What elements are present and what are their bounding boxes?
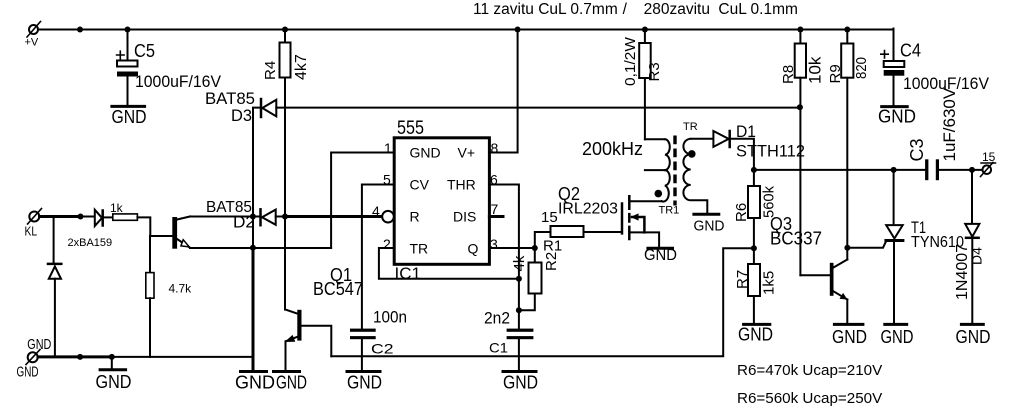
- node: rail junction R9: [844, 27, 850, 33]
- wire: D2/D3 ground vertical: [252, 217, 254, 248]
- svg-text:GND: GND: [112, 107, 147, 127]
- resistor R2: [519, 248, 542, 310]
- capacitor C3: [925, 159, 939, 180]
- node: dot x80: [77, 354, 83, 360]
- svg-text:C1: C1: [489, 340, 508, 356]
- wire: pin1 GND: [331, 153, 394, 249]
- svg-text:GND: GND: [832, 327, 867, 347]
- svg-text:R7: R7: [734, 270, 751, 289]
- diode BA159 (vertical, left): [48, 217, 61, 357]
- wire: pin5 CV: [362, 185, 394, 329]
- svg-text:15: 15: [541, 209, 558, 226]
- svg-text:GND: GND: [503, 373, 538, 393]
- node: dot x111.8: [109, 354, 115, 360]
- ground (D2 line): [235, 372, 275, 393]
- ground (C4): [878, 107, 916, 127]
- svg-text:4.7k: 4.7k: [169, 282, 193, 296]
- svg-text:1k5: 1k5: [761, 271, 778, 295]
- node: rail junction C5: [125, 27, 131, 33]
- ground (C5): [112, 106, 147, 127]
- svg-text:KL: KL: [25, 225, 38, 239]
- svg-text:Q: Q: [468, 241, 479, 257]
- transformer TR1 primary: [645, 139, 670, 201]
- svg-text:R4: R4: [262, 61, 279, 80]
- svg-text:TR: TR: [683, 121, 698, 133]
- node: D2 anode / R4 junction: [282, 214, 288, 220]
- node: Q3 collector junction: [844, 245, 850, 251]
- svg-text:R6=560k Ucap=250V: R6=560k Ucap=250V: [737, 390, 883, 407]
- svg-text:V+: V+: [458, 145, 476, 161]
- svg-text:280zavitu: 280zavitu: [644, 1, 710, 18]
- terminal KL: [28, 209, 42, 225]
- diode D4 1N4007: [965, 170, 979, 324]
- wire: pin6 THR: [489, 185, 519, 311]
- ground (left mid): [96, 357, 132, 392]
- ground (C2): [347, 372, 382, 393]
- node: gnd vertical junction: [250, 245, 256, 251]
- svg-text:IRL2203: IRL2203: [558, 201, 618, 218]
- wire: D3 anode to R8 bottom (y107): [276, 107, 800, 109]
- svg-text:820: 820: [853, 57, 870, 79]
- resistor R8 10k: [795, 30, 806, 276]
- node: R8/D3 junction: [797, 104, 803, 110]
- wire: gnd vertical lower (thick): [252, 248, 255, 370]
- svg-text:R6: R6: [733, 203, 750, 222]
- svg-text:GND: GND: [276, 373, 307, 393]
- svg-text:11 zavitu CuL 0.7mm: 11 zavitu CuL 0.7mm: [473, 1, 618, 18]
- svg-text:D1: D1: [736, 122, 756, 141]
- ground (R7): [738, 324, 773, 344]
- diode D1 STTH112: [713, 131, 754, 170]
- ground (Q2 source): [644, 247, 677, 264]
- svg-text:100n: 100n: [373, 308, 407, 327]
- svg-text:2: 2: [383, 236, 391, 252]
- svg-text:R8: R8: [780, 65, 797, 84]
- pin 4 inversion bubble: [382, 211, 394, 223]
- wire: KL to BA159: [81, 216, 95, 218]
- ic 555 box: [394, 138, 489, 264]
- node: T1 junction: [891, 167, 897, 173]
- terminal GND (left bottom): [26, 350, 40, 365]
- svg-text:7: 7: [491, 201, 499, 217]
- node: primary phase dot: [655, 190, 663, 198]
- wire: Q1 base to feedback: [302, 326, 332, 357]
- wire: emitter / pin1 gnd line: [190, 247, 331, 249]
- svg-text:IC1: IC1: [395, 264, 421, 283]
- node: D2 cathode junction: [250, 214, 256, 220]
- transistor Q3 BC337: [800, 260, 847, 324]
- svg-text:C2: C2: [371, 341, 394, 357]
- node: secondary phase dot: [688, 150, 696, 158]
- svg-text:CuL 0.1mm: CuL 0.1mm: [718, 1, 798, 18]
- svg-text:GND: GND: [644, 247, 677, 264]
- svg-text:15: 15: [982, 150, 996, 164]
- wire: pin3 Q out: [489, 247, 534, 249]
- ground (secondary): [694, 214, 725, 234]
- svg-text:GND: GND: [881, 327, 914, 347]
- wire: feedback bottom: [331, 248, 754, 356]
- svg-text:GND: GND: [17, 365, 39, 381]
- svg-text:GND: GND: [410, 145, 441, 161]
- terminal +V: [27, 22, 41, 38]
- ground (C1): [503, 372, 538, 393]
- svg-text:C3: C3: [907, 138, 927, 161]
- wire: pin8 V+: [489, 30, 517, 153]
- svg-text:STTH112: STTH112: [736, 142, 805, 161]
- svg-text:GND: GND: [694, 218, 725, 235]
- svg-text:D2: D2: [233, 213, 255, 232]
- svg-text:BC337: BC337: [770, 229, 822, 249]
- node: rail junction R8: [797, 27, 803, 33]
- mosfet Q2 IRL2203: [622, 195, 662, 247]
- svg-text:4: 4: [372, 203, 380, 219]
- diode D2 BAT85: [253, 209, 285, 225]
- node: rail junction x80: [77, 27, 83, 33]
- resistor R6 560k: [748, 170, 760, 248]
- capacitor C1 2n2: [507, 310, 534, 370]
- resistor R1 15: [535, 226, 621, 248]
- svg-text:GND: GND: [878, 107, 916, 127]
- svg-text:D3: D3: [231, 106, 252, 125]
- svg-text:1k: 1k: [110, 201, 124, 215]
- transformer core: [673, 136, 676, 206]
- svg-text:C4: C4: [900, 41, 921, 61]
- svg-text:555: 555: [397, 118, 424, 139]
- node: R6 top junction: [751, 167, 757, 173]
- svg-text:+V: +V: [25, 37, 39, 49]
- wire: pin7 DIS stub: [489, 215, 503, 218]
- svg-text:1uF/630V: 1uF/630V: [940, 87, 959, 161]
- svg-text:8: 8: [491, 140, 499, 156]
- wire: terminal 15 underline: [981, 162, 996, 164]
- svg-text:10k: 10k: [806, 56, 825, 84]
- wire: bottom-left ground thick: [38, 355, 112, 358]
- thyristor T1 TYN610: [886, 170, 903, 324]
- wire: bottom-left ground thin: [112, 356, 253, 358]
- svg-text:THR: THR: [447, 177, 476, 193]
- ground (T1): [881, 324, 914, 347]
- node: R2/C1/THR junction: [516, 307, 522, 313]
- resistor 4.7k: [146, 236, 154, 357]
- node: Q/R1/R2 junction: [532, 245, 538, 251]
- wire: KL thick: [40, 215, 81, 218]
- svg-text:TR: TR: [410, 241, 429, 257]
- svg-text:DIS: DIS: [453, 209, 476, 225]
- terminal 15 (output): [981, 163, 994, 177]
- wire: +V top rail: [39, 29, 894, 31]
- resistor R4: [280, 30, 291, 217]
- diode BA159 (horizontal): [95, 210, 113, 226]
- svg-text:GND: GND: [738, 325, 773, 345]
- svg-text:R: R: [410, 209, 420, 225]
- svg-text:GND: GND: [235, 373, 275, 393]
- node: rail junction R3: [642, 27, 648, 33]
- svg-text:4k: 4k: [511, 255, 528, 271]
- resistor R3: [639, 30, 651, 140]
- capacitor C5: [117, 30, 138, 106]
- svg-text:4k7: 4k7: [293, 54, 310, 80]
- svg-text:200kHz: 200kHz: [582, 139, 643, 159]
- svg-text:0,1/2W: 0,1/2W: [622, 36, 639, 86]
- capacitor C4: [881, 29, 905, 106]
- svg-text:/: /: [623, 1, 628, 18]
- node: rail junction R4: [282, 27, 288, 33]
- svg-text:R3: R3: [646, 62, 663, 81]
- node: rail junction V+: [515, 27, 521, 33]
- svg-text:D4: D4: [969, 247, 985, 265]
- svg-text:GND: GND: [27, 337, 51, 353]
- wire: pin2 TR: [379, 248, 519, 279]
- ground (D4): [956, 324, 991, 347]
- resistor R9 820: [841, 30, 853, 260]
- transformer TR1 secondary: [683, 139, 713, 214]
- svg-text:BC547: BC547: [313, 279, 363, 299]
- svg-text:GND: GND: [347, 373, 382, 393]
- svg-text:3: 3: [490, 236, 498, 252]
- svg-text:R9: R9: [827, 64, 844, 83]
- ground (Q1 emitter): [274, 372, 308, 393]
- resistor 1k: [113, 214, 173, 236]
- wire: pin4 reset (thick): [285, 215, 383, 218]
- node: pin2/THR junction: [516, 276, 522, 282]
- node: KL wire dot: [78, 214, 84, 220]
- svg-text:R6=470k Ucap=210V: R6=470k Ucap=210V: [737, 362, 883, 379]
- node: D4 junction: [969, 167, 975, 173]
- wire: HV rail y170: [754, 169, 983, 171]
- svg-text:GND: GND: [956, 327, 991, 347]
- ground (Q3): [832, 324, 867, 347]
- svg-text:2n2: 2n2: [484, 309, 510, 328]
- node: R6/R7 junction: [751, 245, 757, 251]
- svg-text:CV: CV: [410, 177, 430, 193]
- svg-text:1: 1: [384, 140, 392, 156]
- capacitor C2 100n: [350, 329, 376, 371]
- svg-text:R2: R2: [543, 252, 560, 271]
- resistor R7 1k5: [748, 248, 760, 324]
- transistor input NPN: [172, 217, 190, 249]
- wire: input collector to D2: [190, 216, 253, 218]
- transistor Q1 BC547: [285, 217, 302, 371]
- svg-text:TR1: TR1: [659, 205, 680, 217]
- diode D3 BAT85: [253, 99, 276, 217]
- wire: T1 gate: [847, 241, 886, 248]
- svg-text:GND: GND: [96, 372, 132, 392]
- svg-text:C5: C5: [134, 41, 155, 61]
- svg-text:2xBA159: 2xBA159: [68, 237, 113, 249]
